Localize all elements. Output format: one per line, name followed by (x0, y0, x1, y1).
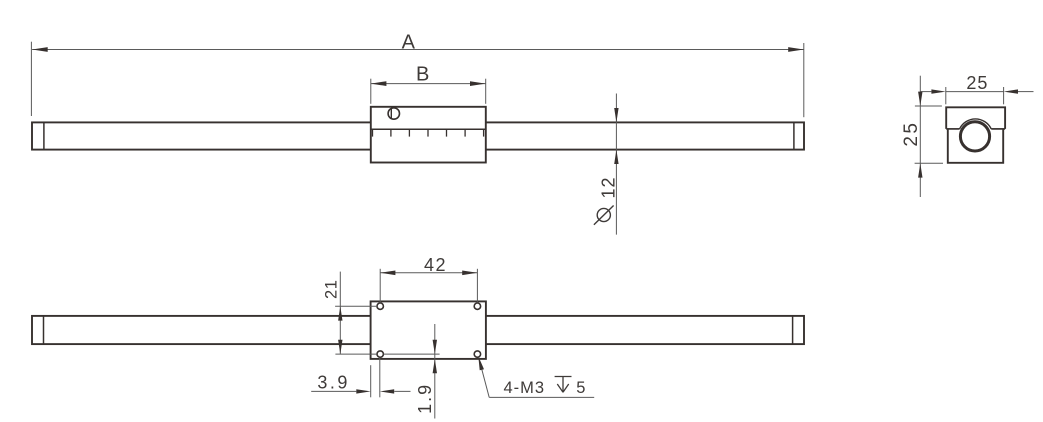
dimension B (371, 64, 486, 104)
shaft front view right chamfer line (793, 122, 795, 149)
svg-text:B: B (416, 64, 429, 86)
end view top clamp cap (946, 107, 1005, 129)
ruler scale line on slide block (371, 129, 486, 136)
dimension A (31, 32, 803, 118)
shaft bottom view left chamfer line (43, 316, 45, 344)
svg-text:4-M3: 4-M3 (504, 379, 546, 397)
mounting block bottom view (371, 301, 486, 359)
depth symbol (555, 377, 572, 393)
svg-text:12: 12 (599, 176, 619, 198)
set screw on slide block (388, 108, 399, 119)
shaft front view left chamfer line (43, 122, 45, 149)
tapped hole bottom-left (377, 351, 383, 357)
shaft bottom view right chamfer line (792, 316, 794, 344)
svg-text:3.9: 3.9 (317, 373, 350, 393)
svg-text:5: 5 (576, 379, 585, 397)
tapped hole top-left (377, 303, 383, 309)
svg-text:42: 42 (424, 255, 447, 275)
leader 4-M3 depth 5 (478, 356, 594, 397)
end view shaft bore circle (960, 122, 989, 151)
tapped hole top-right (474, 303, 480, 309)
svg-text:25: 25 (966, 73, 988, 93)
end view body block (948, 129, 1003, 163)
svg-text:25: 25 (901, 121, 922, 147)
dimension 25 width (920, 73, 1033, 104)
dimension 1.9 (415, 324, 437, 419)
dimension diameter 12 (594, 94, 619, 235)
dimension 21 (322, 272, 439, 355)
dimension 3.9 (311, 358, 410, 398)
svg-text:1.9: 1.9 (415, 383, 435, 414)
end view bore chamfer arc (960, 119, 992, 129)
svg-text:21: 21 (322, 280, 340, 299)
slide block front view (371, 107, 486, 163)
shaft front view (32, 122, 804, 149)
shaft bottom view (32, 316, 804, 344)
dimension 42 (380, 255, 477, 303)
svg-text:A: A (402, 32, 416, 54)
tapped hole bottom-right (474, 351, 480, 357)
dimension 25 height (901, 76, 943, 197)
